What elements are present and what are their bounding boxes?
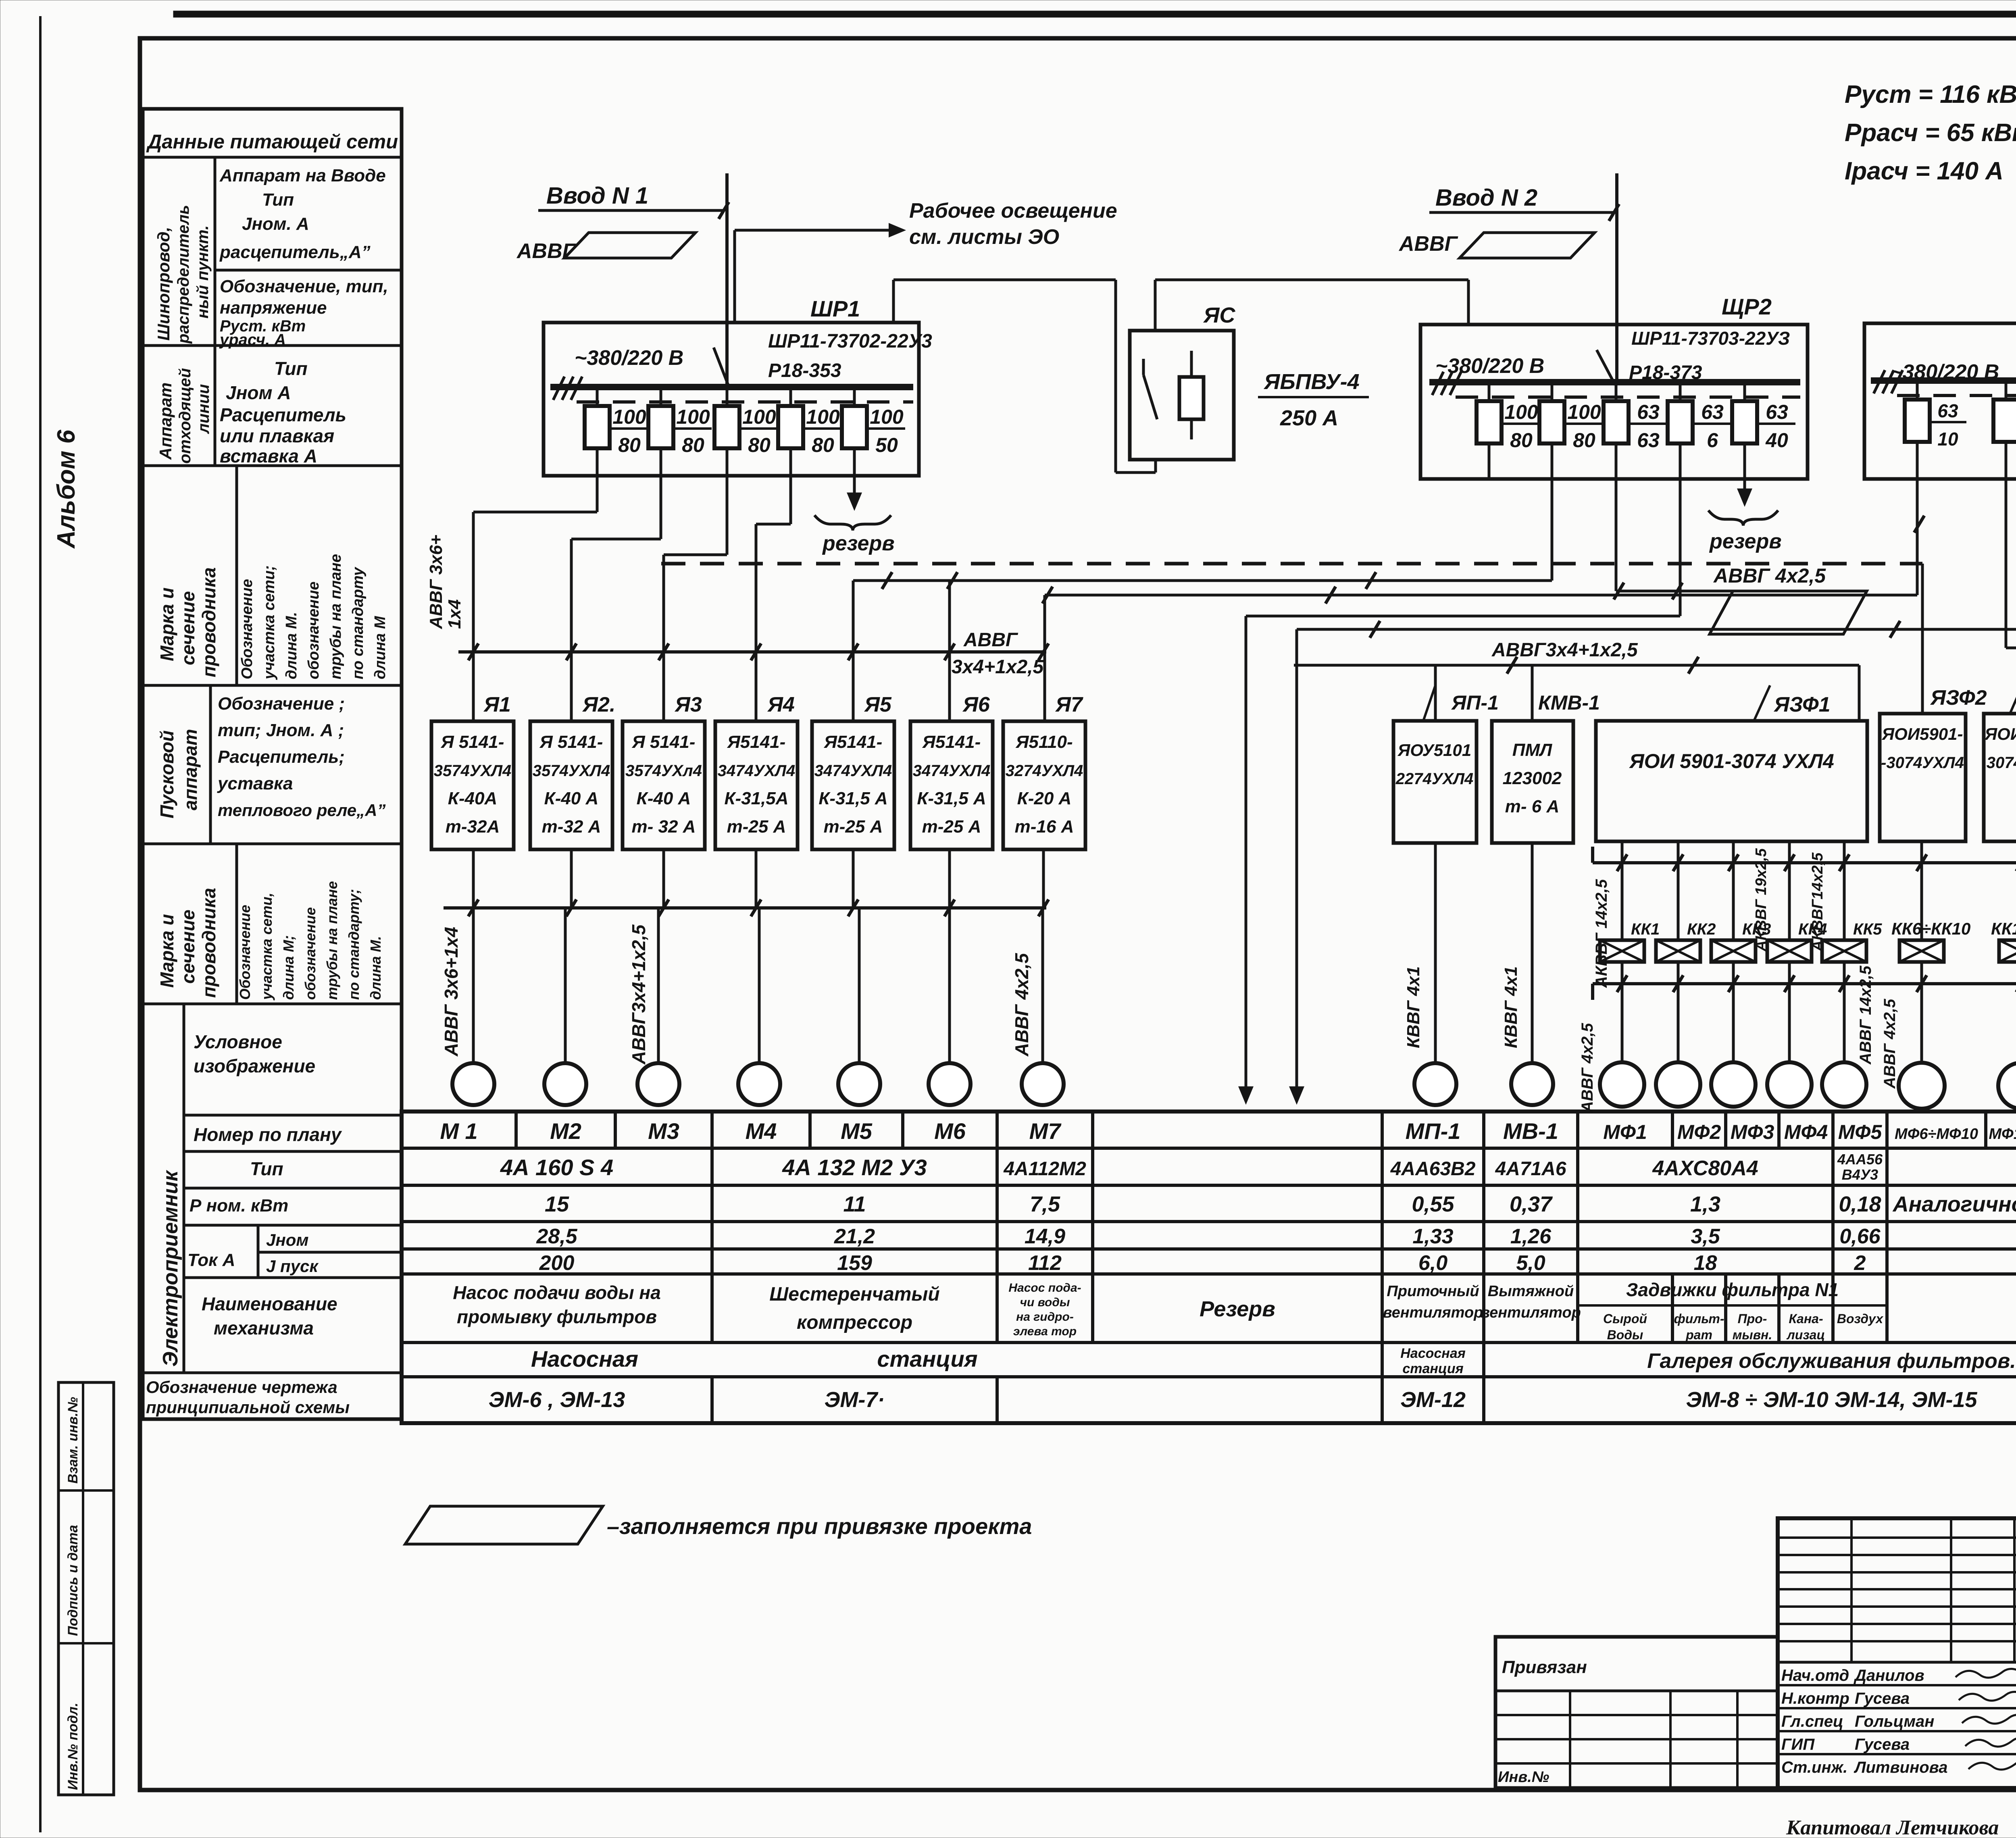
wire Я2 to М2 <box>570 849 573 908</box>
wire reserve ШР2 FU5 <box>1743 479 1746 495</box>
svg-text:112: 112 <box>1028 1251 1062 1275</box>
starter box ЯЗФ2 <box>1880 714 1966 841</box>
title block small grid <box>1778 1536 2016 1539</box>
svg-text:Jном: Jном <box>266 1230 308 1249</box>
svg-text:ПМЛ: ПМЛ <box>1512 740 1552 760</box>
svg-text:МВ-1: МВ-1 <box>1503 1118 1558 1144</box>
svg-text:МФ2: МФ2 <box>1677 1121 1721 1143</box>
svg-text:100: 100 <box>742 406 776 428</box>
svg-text:Инв.№: Инв.№ <box>1498 1769 1549 1786</box>
svg-text:Jном А: Jном А <box>226 382 291 403</box>
wire ШР1 FU2 to Я2 <box>660 476 662 539</box>
svg-text:Инв.№ подл.: Инв.№ подл. <box>65 1703 81 1790</box>
svg-text:проводника: проводника <box>198 888 219 998</box>
svg-text:100: 100 <box>870 406 904 428</box>
svg-text:т-32 А: т-32 А <box>542 817 601 837</box>
svg-text:аппарат: аппарат <box>180 729 201 810</box>
wire ЯЗФ1 output 3 <box>1732 841 1735 940</box>
svg-text:3274УХЛ4: 3274УХЛ4 <box>1006 762 1083 780</box>
motor МП-1 <box>1414 1063 1456 1105</box>
wire КК2 to МФ2 <box>1677 962 1680 1062</box>
starter box ЯЗФ3 <box>1984 714 2016 841</box>
svg-text:ЯОИ 5901-3074 УХЛ4: ЯОИ 5901-3074 УХЛ4 <box>1629 750 1834 772</box>
svg-text:Я 5141-: Я 5141- <box>539 732 603 752</box>
fuse FU ЯС <box>1190 351 1193 439</box>
wire Ввод N2 feeder <box>1615 173 1618 385</box>
svg-text:КК11÷КК15: КК11÷КК15 <box>1991 919 2016 938</box>
svg-text:АВВГ 4х2,5: АВВГ 4х2,5 <box>1011 953 1032 1057</box>
svg-text:см. листы ЭО: см. листы ЭО <box>909 225 1059 249</box>
svg-text:80: 80 <box>812 434 834 456</box>
distribution board ШР1 enclosure <box>544 323 919 476</box>
busbar ШР3 <box>1871 377 2016 384</box>
svg-text:ШР11-73703-22УЗ: ШР11-73703-22УЗ <box>1631 328 1790 349</box>
wire ЯЗФ1 output 1 <box>1621 841 1624 940</box>
svg-text:200: 200 <box>539 1251 575 1275</box>
svg-text:1,3: 1,3 <box>1690 1192 1720 1216</box>
motor М3 <box>637 1063 679 1105</box>
wire КМВ-1 to МВ-1 <box>1531 843 1534 1063</box>
svg-text:Взам. инв.№: Взам. инв.№ <box>65 1397 81 1484</box>
svg-text:участка сети,: участка сети, <box>258 893 275 1001</box>
svg-text:длина М.: длина М. <box>283 612 300 679</box>
svg-text:18: 18 <box>1694 1251 1717 1275</box>
svg-text:-3074УХЛ4: -3074УХЛ4 <box>1881 754 1964 772</box>
svg-text:3474УХЛ4: 3474УХЛ4 <box>718 762 795 780</box>
svg-text:Шинопровод,: Шинопровод, <box>154 227 173 341</box>
svg-text:КК5: КК5 <box>1853 920 1882 938</box>
svg-text:на гидро-: на гидро- <box>1016 1310 1074 1324</box>
svg-text:3,5: 3,5 <box>1691 1225 1720 1248</box>
svg-text:63: 63 <box>1637 401 1660 423</box>
svg-text:Воды: Воды <box>1607 1328 1643 1342</box>
svg-text:М 1: М 1 <box>440 1118 477 1144</box>
svg-text:расцепитель„А”: расцепитель„А” <box>219 242 371 262</box>
wire to working light <box>733 230 736 323</box>
svg-text:ный пункт.: ный пункт. <box>194 225 212 318</box>
svg-text:100: 100 <box>1567 401 1601 423</box>
fuse ШР3 FU2 <box>2005 381 2008 479</box>
svg-text:14,9: 14,9 <box>1025 1225 1065 1248</box>
fuse ШР2 FU3 <box>1615 382 1618 479</box>
svg-text:Я5141-: Я5141- <box>824 732 883 752</box>
svg-text:Тип: Тип <box>262 190 294 210</box>
wire Я7 drop <box>1043 595 1046 721</box>
wire ШР1 FU1 to Я1 <box>596 476 599 512</box>
svg-text:Задвижки фильтра N1: Задвижки фильтра N1 <box>1626 1279 1839 1300</box>
svg-text:1х4: 1х4 <box>445 599 464 629</box>
svg-text:Расцепитель: Расцепитель <box>220 404 346 425</box>
cable group line АВВГ 3х4+1х2,5 Я boxes <box>458 650 1046 654</box>
starter box ЯП-1 <box>1393 721 1477 843</box>
motor МФ1 <box>1600 1062 1644 1107</box>
svg-text:ЯЗФ1: ЯЗФ1 <box>1773 693 1831 716</box>
svg-text:Тип: Тип <box>250 1158 283 1179</box>
svg-text:ЯП-1: ЯП-1 <box>1451 691 1499 714</box>
svg-text:промывку фильтров: промывку фильтров <box>457 1306 657 1327</box>
svg-text:трубы на плане: трубы на плане <box>327 554 344 679</box>
svg-text:К-31,5 А: К-31,5 А <box>818 789 887 808</box>
svg-text:Гл.спец: Гл.спец <box>1781 1713 1843 1730</box>
svg-text:вставка А: вставка А <box>220 445 317 466</box>
svg-text:Марка и: Марка и <box>156 587 177 661</box>
fuse ШР2 FU1 <box>1488 382 1491 479</box>
svg-text:63: 63 <box>1766 401 1788 423</box>
svg-text:100: 100 <box>612 406 646 428</box>
svg-text:3074УХЛ4: 3074УХЛ4 <box>1987 754 2016 772</box>
wire ШР1 to ЯС link <box>892 280 895 323</box>
svg-text:Обозначение: Обозначение <box>239 579 256 679</box>
svg-text:АВВГ 4х2,5: АВВГ 4х2,5 <box>1713 564 1826 587</box>
cable collector upper filters <box>1593 861 2016 864</box>
svg-text:Электроприемник: Электроприемник <box>159 1170 182 1367</box>
svg-text:63: 63 <box>1937 400 1958 421</box>
svg-text:В4У3: В4У3 <box>1842 1166 1878 1183</box>
svg-text:АКВВГ 14х2,5: АКВВГ 14х2,5 <box>1593 879 1610 988</box>
svg-text:Ст.инж.: Ст.инж. <box>1781 1759 1847 1776</box>
svg-text:3574УХл4: 3574УХл4 <box>625 762 702 780</box>
wire starter feed line АВВГ3х4 <box>1294 664 1859 667</box>
svg-text:МП-1: МП-1 <box>1406 1118 1461 1144</box>
svg-text:по стандарту: по стандарту <box>350 566 367 679</box>
svg-text:250 А: 250 А <box>1280 406 1338 430</box>
svg-text:3574УХЛ4: 3574УХЛ4 <box>434 762 511 780</box>
wire ШР3 FU1 to Я7 line <box>1045 594 1917 597</box>
switch QS1 ШР1 <box>714 348 729 387</box>
fuse ШР1 FU4 <box>789 387 792 476</box>
fuse ШР1 FU2 <box>660 387 662 476</box>
svg-text:К-40 А: К-40 А <box>637 789 691 808</box>
switch QS ЯС <box>1142 359 1145 375</box>
svg-text:Аналогично фильтру N 1: Аналогично фильтру N 1 <box>1892 1192 2016 1216</box>
wire trunk to МВ area <box>1297 628 2016 631</box>
svg-text:Подпись и дата: Подпись и дата <box>65 1525 81 1636</box>
svg-text:ЯОУ5101: ЯОУ5101 <box>1397 741 1472 760</box>
svg-text:вентилятор: вентилятор <box>1481 1304 1581 1321</box>
sheet outer edge line left <box>39 16 42 1832</box>
title signature scribbles <box>1956 1669 2016 1678</box>
svg-text:т-25 А: т-25 А <box>824 817 883 837</box>
cable collector line Я boxes <box>444 906 1046 910</box>
svg-text:Литвинова: Литвинова <box>1854 1759 1948 1776</box>
wire КК5 to МФ5 <box>1843 962 1846 1062</box>
привязан box <box>1495 1637 1778 1788</box>
fuse ШР1 FU3 <box>726 387 729 476</box>
svg-text:4АА63В2: 4АА63В2 <box>1390 1158 1476 1180</box>
svg-text:Галерея обслуживания фильт: Галерея обслуживания фильтров. <box>1647 1349 2016 1373</box>
svg-text:5,0: 5,0 <box>1516 1251 1545 1275</box>
svg-text:–заполняется при привязке п: –заполняется при привязке проекта <box>607 1513 1032 1539</box>
svg-text:элева тор: элева тор <box>1013 1325 1077 1338</box>
svg-text:изображение: изображение <box>194 1055 315 1076</box>
svg-text:ЯБПВУ-4: ЯБПВУ-4 <box>1263 370 1360 394</box>
svg-text:КК6÷КК10: КК6÷КК10 <box>1891 919 1970 938</box>
svg-text:28,5: 28,5 <box>536 1225 577 1248</box>
svg-text:АВВГ 3х6+: АВВГ 3х6+ <box>426 535 446 629</box>
wire Я7 to М7 <box>1042 849 1045 908</box>
motor М1 <box>452 1063 494 1105</box>
svg-text:4А 160 S 4: 4А 160 S 4 <box>500 1155 613 1180</box>
svg-text:Обозначение, тип,: Обозначение, тип, <box>220 277 388 296</box>
svg-text:сечение: сечение <box>177 910 198 984</box>
wire КК6÷КК10 to motor group <box>1920 962 1923 1062</box>
svg-text:Я6: Я6 <box>962 693 990 716</box>
attachment field parallelogram Ввод N1 <box>564 233 696 258</box>
svg-text:Обозначение: Обозначение <box>237 905 253 1000</box>
svg-text:станция: станция <box>877 1346 977 1372</box>
busbar dashed ШР3 <box>1897 394 2016 397</box>
svg-text:Капитовал Летчикова: Капитовал Летчикова <box>1786 1816 1999 1838</box>
svg-text:Я7: Я7 <box>1055 693 1083 716</box>
svg-text:1,26: 1,26 <box>1510 1225 1552 1248</box>
wire Я6 drop <box>948 580 951 721</box>
svg-text:компрессор: компрессор <box>797 1312 912 1333</box>
svg-text:Я5141-: Я5141- <box>922 732 981 752</box>
fuse ШР3 FU1 <box>1916 381 1919 479</box>
wire ЯЗФ1 output 2 <box>1677 841 1680 940</box>
svg-text:чи воды: чи воды <box>1020 1296 1070 1309</box>
svg-text:ЭМ-12: ЭМ-12 <box>1400 1388 1466 1412</box>
svg-text:т-32А: т-32А <box>446 817 500 837</box>
svg-text:ЭМ-8 ÷ ЭМ-10 ЭМ-14, ЭМ-15: ЭМ-8 ÷ ЭМ-10 ЭМ-14, ЭМ-15 <box>1686 1388 1978 1412</box>
wire ШР2 FU1 trunk to Я5 Я6 <box>1489 479 1489 564</box>
starter box ЯЗФ1 group <box>1596 721 1867 841</box>
svg-text:Марка и: Марка и <box>156 914 177 988</box>
wire dashed trunk line <box>661 562 1922 566</box>
svg-text:ЩР2: ЩР2 <box>1722 294 1772 319</box>
wire Я1 to М1 <box>472 849 475 1063</box>
svg-text:2: 2 <box>1854 1251 1866 1275</box>
svg-text:АКВВГ 19х2,5: АКВВГ 19х2,5 <box>1753 848 1770 952</box>
svg-text:Я5110-: Я5110- <box>1015 732 1073 752</box>
svg-text:резерв: резерв <box>1709 530 1782 553</box>
sidebar table: feeding network data <box>143 109 402 1419</box>
svg-text:Р ном. кВт: Р ном. кВт <box>190 1196 288 1216</box>
svg-text:80: 80 <box>1510 429 1533 452</box>
wire ШР1 FU3 to Я3 <box>726 476 729 555</box>
svg-text:АВВГ: АВВГ <box>1398 232 1458 256</box>
fuse ШР2 FU4 <box>1679 382 1682 479</box>
wire Я5 to М5 <box>852 849 855 908</box>
svg-text:100: 100 <box>806 406 840 428</box>
svg-text:М2: М2 <box>550 1118 581 1144</box>
wire ШР2 FU3 cable line <box>1615 479 1618 591</box>
motor МФ3 <box>1711 1062 1756 1107</box>
wire ШР3 FU2 to щитовая line <box>2005 479 2008 648</box>
svg-text:фильт-: фильт- <box>1674 1311 1724 1326</box>
svg-text:линии: линии <box>195 384 212 434</box>
busbar ШР2 <box>1429 379 1800 385</box>
svg-text:80: 80 <box>618 434 641 456</box>
wire ШР2 FU4 down trunk <box>1679 479 1682 616</box>
svg-text:4АА56: 4АА56 <box>1837 1151 1883 1168</box>
switch QS2 ШР2 <box>1597 350 1615 385</box>
svg-text:тип; Jном. А ;: тип; Jном. А ; <box>218 720 344 740</box>
svg-text:К-20 А: К-20 А <box>1017 789 1072 808</box>
svg-text:Сырой: Сырой <box>1603 1311 1647 1326</box>
cable collector lower filters <box>1593 982 2016 985</box>
svg-text:Ток А: Ток А <box>187 1250 235 1270</box>
svg-text:Я 5141-: Я 5141- <box>441 732 504 752</box>
svg-text:резерв: резерв <box>822 532 895 555</box>
svg-text:80: 80 <box>748 434 771 456</box>
sidebar row Рном кВт <box>184 1224 402 1227</box>
sidebar group Аппарат отходящей линии <box>215 346 215 466</box>
motor МФ2 <box>1656 1062 1700 1107</box>
sidebar group Марка и сечение проводника 2 <box>235 844 238 1004</box>
svg-text:КК2: КК2 <box>1687 920 1716 938</box>
svg-text:М6: М6 <box>934 1118 966 1144</box>
fuse ШР1 FU5 <box>853 387 856 476</box>
wire ЯП-1 feed <box>1434 665 1437 721</box>
svg-text:Я1: Я1 <box>483 693 511 716</box>
inventory strip box <box>58 1382 114 1795</box>
svg-text:0,37: 0,37 <box>1510 1192 1553 1216</box>
wire ЯЗФ1 output 5 <box>1843 841 1846 940</box>
svg-text:100: 100 <box>1504 401 1538 423</box>
svg-text:теплового реле„А”: теплового реле„А” <box>218 801 386 820</box>
svg-text:Расцепитель;: Расцепитель; <box>218 747 345 767</box>
svg-text:КК1: КК1 <box>1631 920 1660 938</box>
svg-text:или плавкая: или плавкая <box>220 425 334 446</box>
svg-text:напряжение: напряжение <box>220 298 327 318</box>
svg-text:АВВГ3х4+1х2,5: АВВГ3х4+1х2,5 <box>1491 639 1638 661</box>
svg-text:Тип: Тип <box>274 358 308 379</box>
svg-text:123002: 123002 <box>1503 768 1562 788</box>
legend parallelogram <box>405 1506 603 1544</box>
svg-text:ЭМ-6 , ЭМ-13: ЭМ-6 , ЭМ-13 <box>489 1388 625 1412</box>
svg-text:М3: М3 <box>648 1118 679 1144</box>
svg-text:Я4: Я4 <box>767 693 795 716</box>
svg-text:К-40 А: К-40 А <box>544 789 599 808</box>
svg-text:63: 63 <box>1637 429 1660 452</box>
svg-text:6,0: 6,0 <box>1418 1251 1447 1275</box>
svg-text:МФ5: МФ5 <box>1838 1121 1883 1143</box>
svg-text:Вытяжной: Вытяжной <box>1488 1283 1574 1300</box>
svg-text:проводника: проводника <box>198 567 219 677</box>
svg-text:лизац: лизац <box>1786 1328 1825 1342</box>
svg-text:Я5: Я5 <box>864 693 892 716</box>
wire КК3 to МФ3 <box>1732 962 1735 1062</box>
svg-text:ШР11-73702-22У3: ШР11-73702-22У3 <box>768 331 932 352</box>
svg-text:Насосная: Насосная <box>531 1346 638 1372</box>
wire КК1 to МФ1 <box>1621 962 1624 1062</box>
svg-text:2274УХЛ4: 2274УХЛ4 <box>1395 770 1473 788</box>
svg-text:Альбом 6: Альбом 6 <box>52 429 80 549</box>
svg-text:1,33: 1,33 <box>1412 1225 1453 1248</box>
svg-text:Резерв: Резерв <box>1200 1297 1275 1321</box>
svg-text:МФ1: МФ1 <box>1603 1121 1647 1143</box>
svg-text:уставка: уставка <box>217 774 293 793</box>
motor group МФ6 <box>1899 1063 1945 1109</box>
svg-text:3574УХЛ4: 3574УХЛ4 <box>533 762 610 780</box>
motor МВ-1 <box>1511 1063 1553 1105</box>
svg-text:Кана-: Кана- <box>1789 1311 1823 1326</box>
wire ЯЗФ2 feed <box>1921 564 1924 714</box>
svg-text:100: 100 <box>676 406 710 428</box>
svg-text:М7: М7 <box>1029 1118 1062 1144</box>
wire Я5 drop <box>852 581 855 721</box>
svg-text:КВВГ 4х1: КВВГ 4х1 <box>1404 966 1423 1048</box>
svg-text:10: 10 <box>1937 429 1958 450</box>
svg-text:Гусева: Гусева <box>1855 1736 1910 1753</box>
svg-text:3х4+1х2,5: 3х4+1х2,5 <box>952 656 1044 678</box>
motor МФ5 <box>1822 1062 1866 1107</box>
busbar dashed ШР1 <box>577 400 913 404</box>
starter box Я4 <box>715 721 798 849</box>
wire ЯС to ШР2 link <box>1191 331 1192 351</box>
svg-text:Рабочее освещение: Рабочее освещение <box>909 199 1117 223</box>
svg-text:Руст = 116 кВт: Руст = 116 кВт <box>1845 81 2016 108</box>
wire Я6 to М6 <box>948 849 951 1063</box>
svg-text:МФ6÷МФ10: МФ6÷МФ10 <box>1895 1126 1978 1143</box>
motor М4 <box>738 1063 780 1105</box>
wire Я4 to М4 <box>755 849 758 908</box>
svg-text:Я2.: Я2. <box>582 693 615 716</box>
starter box Я3 <box>623 721 705 849</box>
scan top edge smudge <box>173 11 2016 17</box>
svg-text:Шестеренчатый: Шестеренчатый <box>769 1284 939 1305</box>
svg-text:Аппарат: Аппарат <box>156 383 175 460</box>
svg-text:Приточный: Приточный <box>1387 1283 1479 1300</box>
svg-text:К-31,5 А: К-31,5 А <box>917 789 986 808</box>
starter box Я1 <box>431 721 514 849</box>
svg-text:4АХС80А4: 4АХС80А4 <box>1652 1157 1758 1180</box>
svg-text:4А71А6: 4А71А6 <box>1495 1158 1566 1180</box>
attachment field parallelogram Ввод N2 <box>1460 233 1595 258</box>
svg-text:40: 40 <box>1765 429 1788 452</box>
svg-text:50: 50 <box>875 434 898 456</box>
wire Ввод N1 feeder <box>725 173 729 387</box>
svg-text:вентилятор: вентилятор <box>1383 1304 1483 1321</box>
sidebar group Электроприемник <box>183 1004 185 1373</box>
tie switch box ЯС enclosure <box>1130 331 1234 460</box>
sidebar row Номер по плану <box>184 1150 402 1153</box>
svg-text:АВВГ: АВВГ <box>963 629 1018 651</box>
svg-text:Данилов: Данилов <box>1854 1667 1924 1684</box>
svg-text:J пуск: J пуск <box>266 1257 319 1276</box>
title block frame <box>1778 1518 2016 1788</box>
motor МФ4 <box>1767 1062 1812 1107</box>
svg-text:КМВ-1: КМВ-1 <box>1538 691 1600 714</box>
svg-text:Ввод N 1: Ввод N 1 <box>546 183 648 209</box>
svg-text:63: 63 <box>1701 401 1724 423</box>
svg-text:ЯОИ5901-: ЯОИ5901- <box>1882 724 1963 743</box>
svg-text:М5: М5 <box>841 1118 873 1144</box>
svg-text:т-16 А: т-16 А <box>1015 817 1074 837</box>
starter box Я5 <box>812 721 894 849</box>
attachment field parallelogram mid <box>1710 591 1867 634</box>
fuse ШР2 FU5 <box>1743 382 1746 479</box>
svg-text:0,66: 0,66 <box>1839 1225 1881 1248</box>
svg-text:МФ4: МФ4 <box>1784 1121 1828 1143</box>
svg-text:~380/220 В: ~380/220 В <box>575 346 683 370</box>
svg-text:Насосная: Насосная <box>1400 1346 1466 1361</box>
svg-text:4А 132 М2 У3: 4А 132 М2 У3 <box>782 1155 927 1180</box>
fuse ШР1 FU1 <box>596 387 599 476</box>
svg-text:80: 80 <box>1573 429 1595 452</box>
svg-text:3474УХЛ4: 3474УХЛ4 <box>913 762 990 780</box>
svg-text:Я5141-: Я5141- <box>727 732 786 752</box>
svg-text:Насос подачи воды на: Насос подачи воды на <box>453 1282 661 1303</box>
svg-text:станция: станция <box>1402 1361 1463 1376</box>
sidebar row Тип <box>184 1187 402 1190</box>
svg-text:Обозначение чертежа: Обозначение чертежа <box>146 1378 337 1397</box>
svg-text:Номер по плану: Номер по плану <box>194 1124 342 1145</box>
svg-text:АВВГ 4х2,5: АВВГ 4х2,5 <box>1881 999 1899 1089</box>
svg-text:отходящей: отходящей <box>176 368 194 464</box>
svg-text:Ррасч = 65 кВт: Ррасч = 65 кВт <box>1845 119 2016 147</box>
